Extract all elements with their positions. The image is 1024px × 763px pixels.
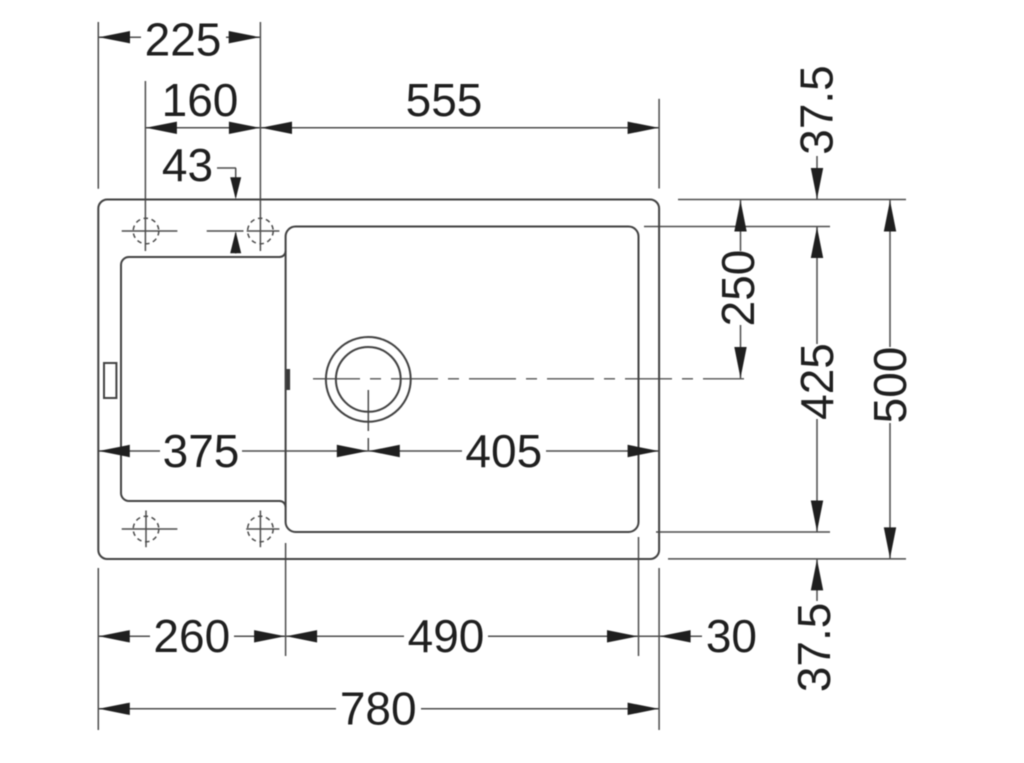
svg-text:37.5: 37.5 xyxy=(791,65,843,155)
svg-text:375: 375 xyxy=(163,425,240,477)
svg-text:160: 160 xyxy=(162,74,239,126)
svg-text:555: 555 xyxy=(406,74,483,126)
svg-text:43: 43 xyxy=(162,139,213,191)
svg-text:405: 405 xyxy=(465,425,542,477)
svg-text:260: 260 xyxy=(153,610,230,662)
svg-text:425: 425 xyxy=(791,343,843,420)
svg-text:500: 500 xyxy=(864,347,916,424)
svg-text:225: 225 xyxy=(145,14,222,66)
svg-text:490: 490 xyxy=(408,610,485,662)
svg-text:30: 30 xyxy=(706,610,757,662)
svg-text:250: 250 xyxy=(712,250,764,327)
svg-text:37.5: 37.5 xyxy=(788,603,840,693)
svg-text:780: 780 xyxy=(340,683,417,735)
